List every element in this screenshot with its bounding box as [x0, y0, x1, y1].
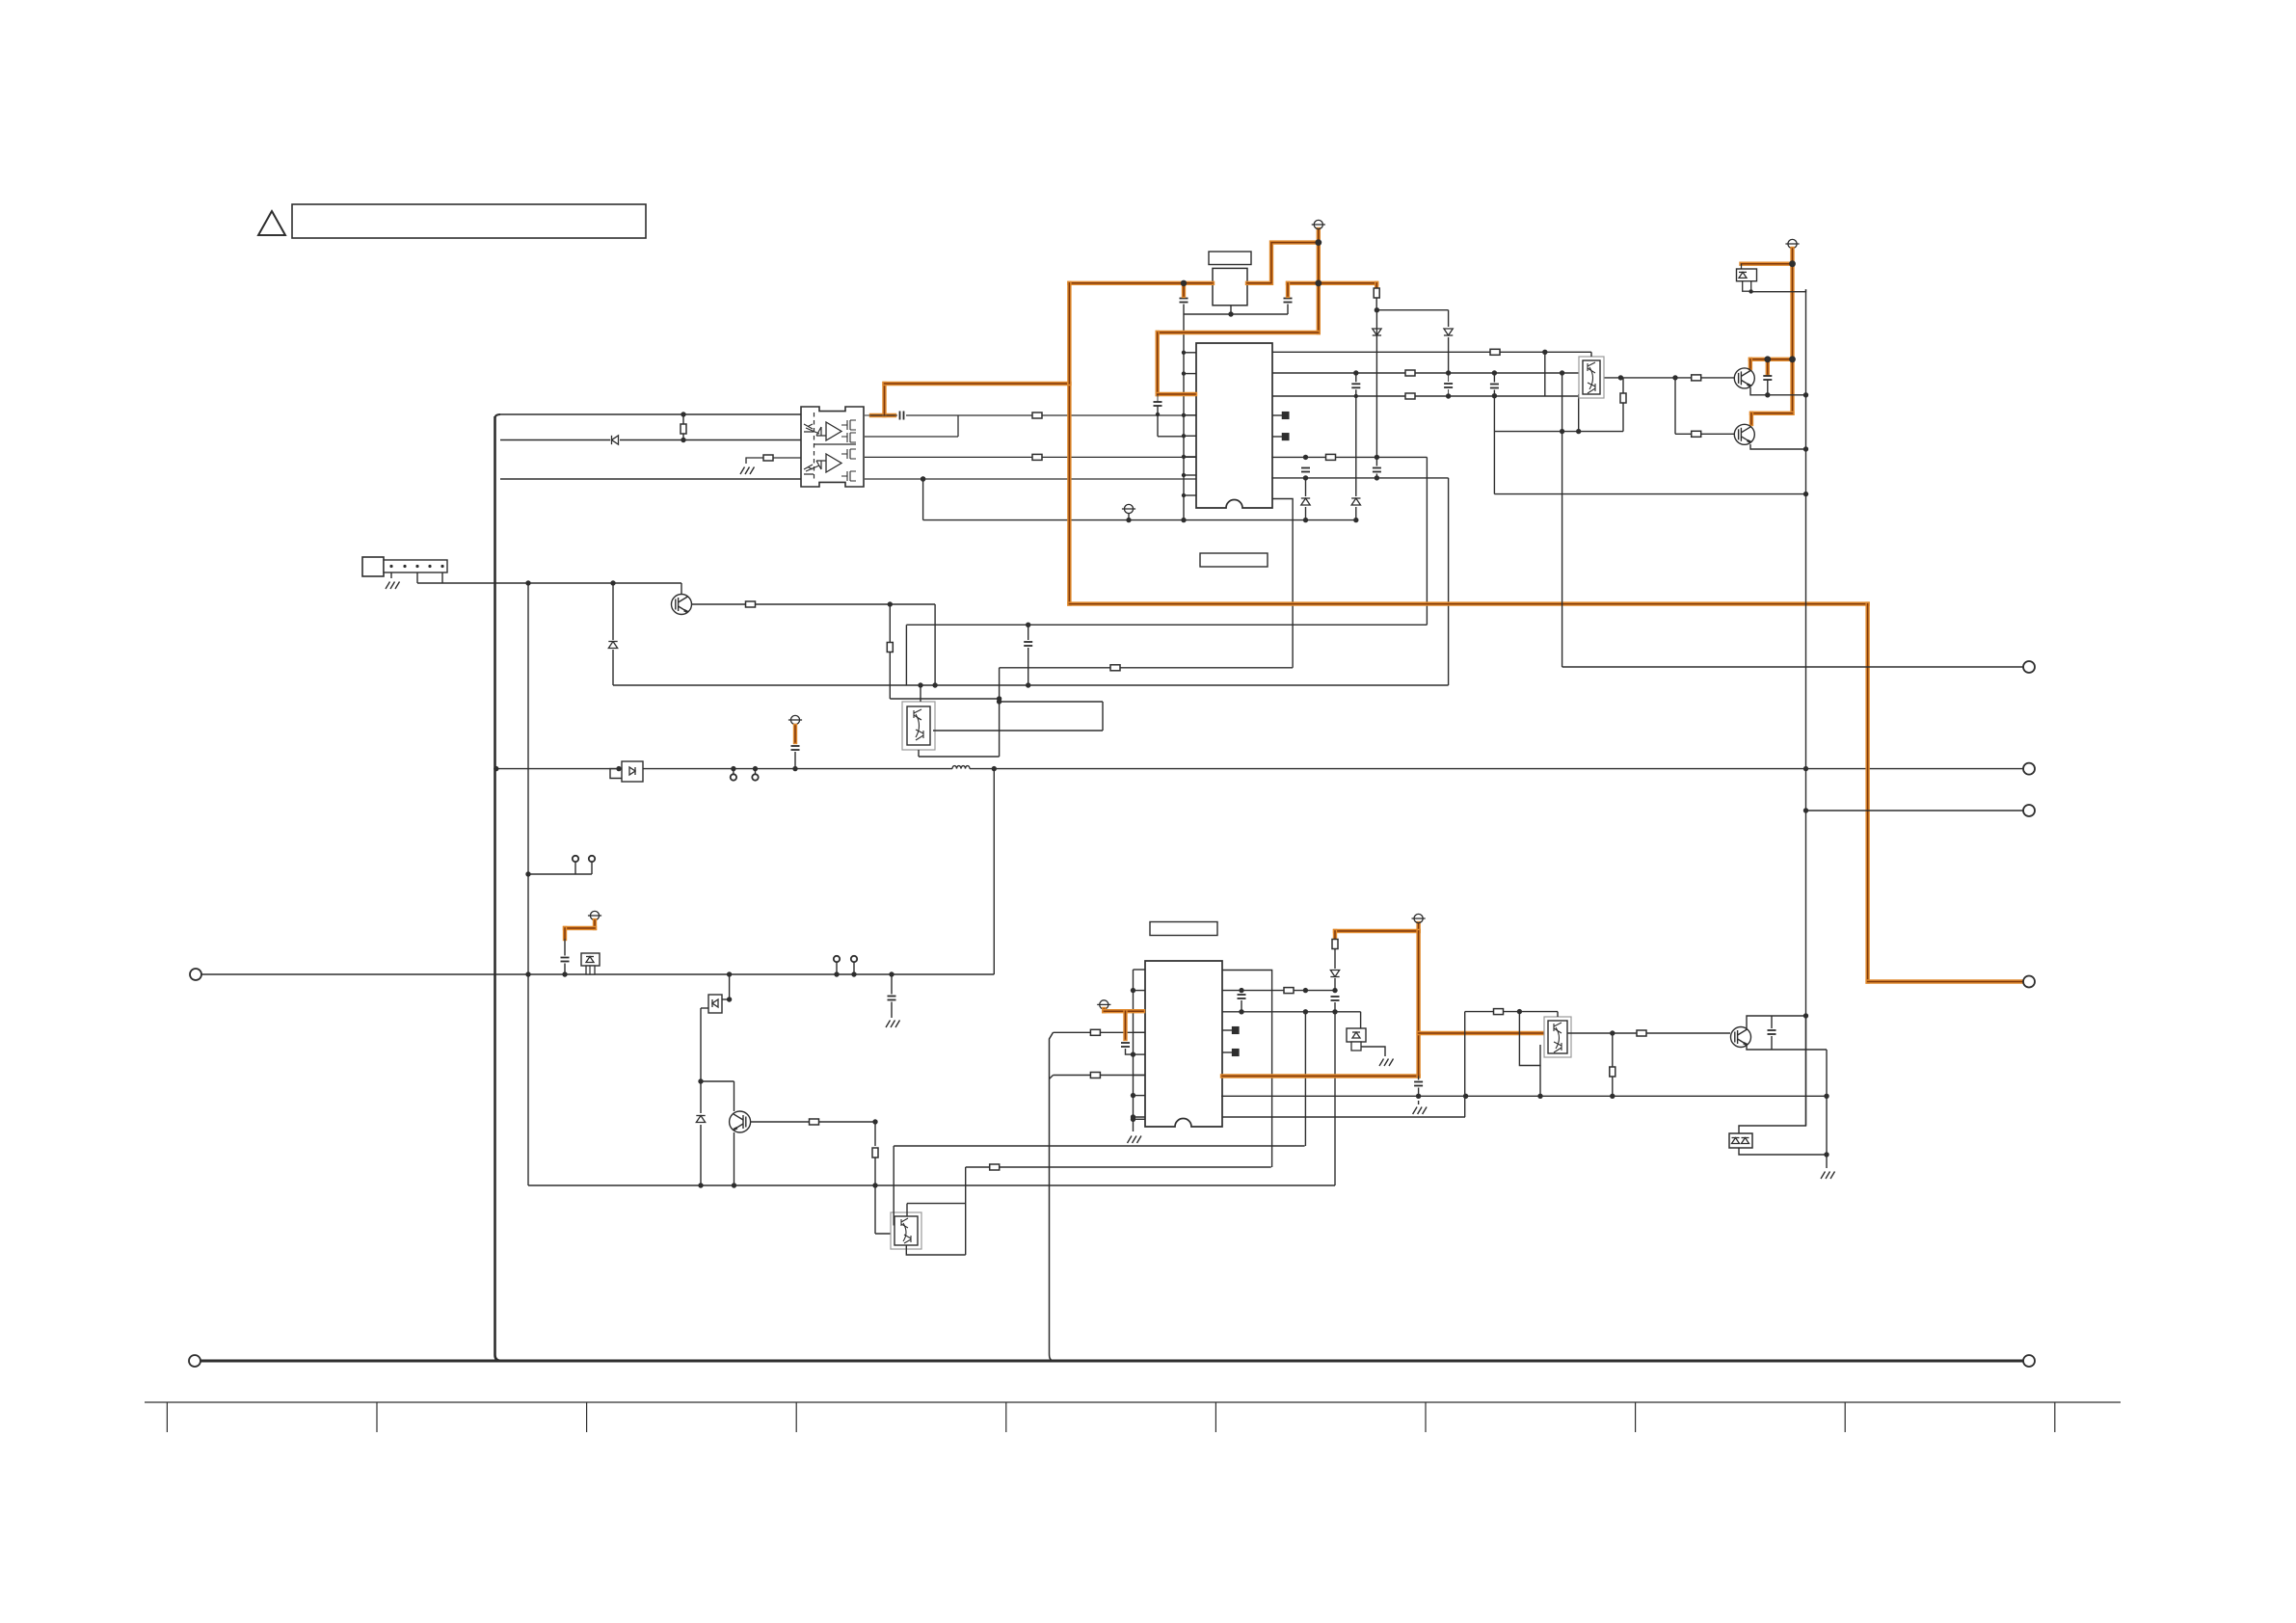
orange right column: [1790, 249, 1794, 413]
orange Q4 collector stub: [1749, 359, 1752, 368]
zener D16 x727: [696, 1116, 705, 1123]
zener D12 x636: [608, 642, 617, 649]
resistor R15 y1164: [810, 1119, 819, 1125]
wire x908 upper: [874, 1122, 876, 1146]
wire net OPTO-A2 y456.5 left: [500, 439, 610, 441]
driver block U4 inner: [894, 1216, 918, 1245]
resistor R12 y627: [746, 601, 756, 607]
driver block U4 outer: [891, 1212, 921, 1249]
pin pad U2 y1092: [1233, 1050, 1240, 1056]
wire opto y431 to U1: [906, 414, 1196, 416]
zener D4 x1502: [1444, 329, 1453, 335]
zener D19a: [1732, 1138, 1740, 1144]
opto input ground: [740, 467, 755, 475]
terminal bottom-left: [189, 1355, 200, 1367]
resistor R16 x908: [872, 1148, 878, 1157]
orange stub VREF2: [593, 920, 597, 928]
resistor R21 y1049: [1494, 1009, 1504, 1015]
U2 pin stub y1092: [1222, 1051, 1233, 1053]
capacitor C27 x1471: [1414, 1082, 1423, 1086]
IC U1 left pin bus: [1183, 314, 1185, 520]
orange stub C1: [1182, 283, 1186, 296]
wire x1519 vertical: [1464, 1012, 1466, 1117]
wire Dz stub: [1741, 264, 1743, 269]
wire x1602 feedback: [1544, 352, 1546, 396]
test point TP5: [834, 956, 840, 962]
wire x1406 upper: [1355, 373, 1357, 382]
cap C21 stub top: [1028, 625, 1029, 640]
wire y1164 to x908: [818, 1121, 875, 1123]
orange drop: [563, 928, 567, 939]
wire x1738: [1674, 378, 1676, 434]
connector pin 3: [415, 565, 418, 568]
wire net y797 left: [498, 768, 952, 770]
transistor Q7: [730, 1111, 751, 1132]
optocoupler U6 mid bar: [814, 443, 856, 445]
wire Q6 collector drop: [681, 583, 682, 594]
orange junction: [1315, 279, 1322, 286]
capacitor C6 series y431: [900, 412, 904, 420]
tp stub 2: [591, 862, 593, 874]
wire U4 top pin: [906, 1204, 908, 1216]
wire x1428 chain upper: [1375, 310, 1377, 466]
driver U7 transistors: [1588, 362, 1595, 393]
test point TP6: [851, 956, 857, 962]
wire T1 tap: [1230, 306, 1232, 314]
orange x1367 drop: [1317, 229, 1321, 333]
wire U5 top stub: [1557, 1012, 1559, 1017]
wire x548 vertical: [527, 583, 529, 1185]
wire net y447: [1494, 431, 1623, 433]
resistor R25 y1211: [990, 1164, 1000, 1170]
orange opto out stub: [871, 413, 894, 417]
driver U3 transistors: [914, 709, 923, 740]
wire x1385 mid: [1334, 949, 1336, 970]
zener block D5 tab: [1743, 281, 1751, 292]
orange junction2: [1315, 239, 1322, 246]
wire C29 gnd stub: [891, 1002, 893, 1019]
optocoupler U6 divider: [814, 412, 815, 481]
orange Q5 collector stub: [1749, 413, 1753, 424]
warning triangle: [258, 211, 285, 235]
wire Q7 base: [751, 1121, 810, 1123]
IC U1 left pin y452.3: [1184, 435, 1196, 437]
wire D2 stub: [1355, 389, 1357, 496]
wire D18 to gnd: [1361, 1047, 1385, 1056]
wire net y692 to terminal: [1562, 666, 2023, 668]
wire net y1011: [201, 973, 994, 975]
connector drop 1: [416, 572, 418, 583]
orange branch driver: [1742, 262, 1793, 266]
wire net y692 feedback: [1000, 667, 1294, 669]
resistor R17 y1071: [1090, 1029, 1100, 1035]
wire C23 stub top: [564, 939, 566, 956]
wire net y512: [1494, 493, 1805, 495]
wire net y1211: [966, 1166, 1271, 1168]
wire totem low stub: [1588, 394, 1589, 396]
ground D18: [1379, 1059, 1394, 1067]
wire x1385 mid2: [1334, 978, 1336, 993]
wire net A y711: [613, 684, 1449, 686]
optocoupler U6 fet2b: [841, 471, 856, 481]
wire x756 down: [729, 974, 731, 999]
wire C23 stub bot: [564, 964, 566, 975]
resistor R4 y474: [1326, 454, 1336, 460]
wire U5 output: [1567, 1032, 1637, 1034]
diode D13 glyph: [629, 767, 635, 775]
orange C8 stub: [1766, 359, 1770, 374]
U2 pin stub y1069: [1222, 1029, 1233, 1031]
wire D2 stub2: [1355, 507, 1357, 520]
driver block U7 inner: [1583, 360, 1600, 394]
cap C28 stub2: [1771, 1036, 1773, 1050]
wire U4 loop top: [907, 1203, 966, 1205]
capacitor C24 x1167: [1121, 1043, 1130, 1047]
orange GATE2 run: [1222, 1074, 1419, 1078]
test point TP1: [573, 856, 578, 862]
IC U2 left pin y1006: [1134, 969, 1146, 971]
IC U2 left pin y1161: [1134, 1118, 1146, 1120]
terminal OUT1 right: [2023, 661, 2035, 673]
orange VCC vertical: [1416, 931, 1420, 1077]
IC U2 bus ground: [1128, 1136, 1142, 1144]
tp stub 6: [853, 962, 855, 974]
wire opto y497 long: [865, 478, 1196, 480]
wire U4 out riser: [893, 1146, 894, 1226]
driver block U3 outer: [902, 702, 935, 750]
resistor R3 y411: [1405, 393, 1415, 399]
wire R24 upper: [1622, 378, 1624, 393]
wire D1 stub2: [1305, 507, 1307, 520]
connector pin 1: [389, 565, 392, 568]
resistor R23 x1672: [1610, 1067, 1615, 1077]
main left bus vertical: [495, 416, 502, 1361]
capacitor C29 x925: [888, 997, 896, 1000]
transformer T1 box: [1213, 268, 1247, 305]
wire IC2 input y1071: [1054, 1031, 1146, 1033]
IC U1 left pin y387.6: [1184, 373, 1196, 375]
orange drop x1200: [1155, 333, 1159, 394]
terminal left mid: [190, 969, 201, 980]
wire x1873 long vertical: [1805, 289, 1807, 1126]
wire net y1137: [1221, 1095, 1827, 1097]
orange link: [565, 926, 595, 930]
IC U2 left pin y1094: [1134, 1053, 1146, 1055]
wire x1031 down: [993, 769, 995, 974]
wire x1502 mid: [1448, 337, 1450, 373]
wire x1480 down: [1426, 457, 1428, 625]
wire R8 to y321: [1375, 298, 1377, 310]
cap C3 stub: [1157, 406, 1159, 414]
zener D1 x1354: [1301, 498, 1310, 505]
orange SGND stub: [1102, 1009, 1106, 1011]
wire x1620 long: [1562, 373, 1563, 667]
wire D13 bracket: [610, 769, 622, 779]
wire opto pin3: [773, 457, 801, 459]
driver block U7 outer: [1579, 357, 1604, 398]
test point TP2: [589, 856, 595, 862]
wire C27 stub2: [1418, 1088, 1420, 1097]
resistor R19 y1027: [1284, 988, 1294, 994]
wire x727 to zener: [700, 1081, 702, 1113]
cap C25 stub2: [1241, 1000, 1242, 1012]
terminal screw VCC3: [1785, 239, 1799, 248]
wire x957 corner: [922, 479, 924, 520]
orange junction C1: [1181, 280, 1187, 286]
wire x994: [957, 415, 959, 437]
capacitor C22 x825: [791, 746, 800, 750]
capacitor C23 x586: [561, 958, 570, 962]
warning note box: [292, 204, 646, 238]
wire C8 bottom: [1767, 380, 1769, 395]
IC U2 left pin y1136: [1134, 1095, 1146, 1097]
wire net OPTO-A3 y497: [500, 478, 801, 480]
wire net B y725: [890, 698, 999, 700]
wire x1672 lower: [1612, 1077, 1614, 1096]
wire x727 upper: [700, 1008, 702, 1081]
test point TP4: [752, 774, 758, 780]
optocoupler U6 amp1: [826, 422, 841, 440]
terminal OUT2 right: [2023, 763, 2035, 775]
wire x1144: [1102, 702, 1104, 731]
wire D5 out: [1751, 289, 1806, 292]
wire net y1230: [528, 1184, 1335, 1186]
orange run y398: [885, 382, 1070, 386]
wire x970 down: [934, 604, 936, 685]
wire net y841: [1806, 810, 2024, 811]
wire net y539: [923, 519, 1356, 521]
pin pad U2 y1069: [1233, 1027, 1240, 1034]
wire net CN-row y605: [417, 582, 681, 584]
wire U1 row5 y495: [1271, 477, 1448, 479]
resistor R10 y450: [1692, 431, 1701, 437]
driver U5 transistors: [1554, 1023, 1562, 1052]
wire y627 to corner: [756, 603, 935, 605]
label box T1: [1209, 252, 1251, 265]
wire x923 lower: [889, 652, 891, 699]
wire U3 bottom loop: [919, 756, 1000, 758]
wire U1 row4 y474: [1271, 456, 1427, 458]
resistor R18 y1115: [1090, 1073, 1100, 1078]
orange T1 secondary jog: [1247, 243, 1319, 283]
wire Q6 out to R: [692, 603, 745, 605]
wire R24 lower: [1622, 403, 1624, 432]
resistor R14 y692: [1110, 665, 1120, 671]
zener pair D19 box: [1729, 1133, 1752, 1148]
terminal OUT4 right: [2023, 976, 2035, 988]
wire x727 lower: [700, 1125, 702, 1185]
wire zener pair to gnd net: [1739, 1148, 1827, 1155]
wire U4 input: [875, 1233, 894, 1235]
capacitor C25 x1288: [1238, 995, 1246, 998]
wire y321 link: [1376, 309, 1448, 311]
wire Q8 collector: [1747, 1016, 1806, 1029]
optocoupler U6 amp2: [826, 454, 841, 472]
wire U1 row1 y365: [1272, 351, 1591, 353]
IC U2 body: [1145, 961, 1222, 1127]
wire Q7 collector drop: [734, 1081, 735, 1111]
orange SGND cap drop: [1123, 1011, 1127, 1039]
label box U1: [1200, 553, 1268, 567]
inductor L1: [952, 766, 970, 769]
wire to Dz block: [1360, 1012, 1362, 1028]
orange branch to C2: [1288, 281, 1319, 285]
IC U1 body: [1196, 343, 1272, 508]
terminal screw SGND: [1097, 1000, 1110, 1009]
U1 pin stub y453: [1272, 436, 1282, 438]
U1 pin stub y431: [1272, 414, 1282, 416]
ground C29: [886, 1021, 900, 1028]
wire x1550: [1493, 390, 1495, 494]
orange VCC pin U1: [1158, 392, 1195, 396]
cap C3 stub top: [1157, 394, 1159, 402]
IC U2 left pin y1115: [1134, 1075, 1146, 1077]
resistor R11 x709: [681, 424, 686, 434]
connector pin 5: [441, 565, 443, 568]
wire IC2 input y1115: [1054, 1075, 1146, 1077]
wire net y648: [906, 624, 1427, 625]
orange run to R8: [1319, 281, 1376, 285]
transistor Q8 IGBT: [1731, 1027, 1751, 1048]
ruler baseline: [145, 1401, 2121, 1403]
capacitor C31 x1550: [1490, 385, 1499, 388]
orange x1109 upper: [1067, 283, 1071, 384]
transistor Q5 IGBT: [1734, 424, 1754, 444]
wire x940 down: [905, 625, 907, 685]
wire Q5 base y450: [1675, 433, 1734, 435]
orange stub C2: [1286, 283, 1290, 296]
wire U2 pin y1006 drop: [1222, 971, 1272, 1168]
zener D19b: [1742, 1138, 1749, 1144]
tp stub 5: [836, 962, 838, 974]
wire U1 row2 y387: [1272, 372, 1581, 374]
ground C27: [1413, 1107, 1428, 1115]
tp stub 3: [733, 769, 734, 774]
IC U1 left pin y365.8: [1184, 352, 1196, 354]
driver block U3 inner: [907, 706, 930, 745]
IC U2 left pin y1027: [1134, 990, 1146, 992]
orange VCC drop: [1333, 931, 1337, 939]
capacitor C1 x1228: [1180, 299, 1188, 303]
wire to Q8 base: [1646, 1032, 1730, 1034]
IC U1 left pin y409: [1184, 393, 1196, 395]
terminal screw VREF1: [788, 715, 802, 724]
orange riser x917: [882, 384, 886, 415]
wire opto gnd stub: [746, 458, 763, 464]
wire x1385 mid3: [1334, 1002, 1336, 1012]
pin pad U1 y431: [1282, 412, 1289, 419]
optocoupler U6 fet1b: [841, 433, 856, 442]
wire Q7 emitter drop: [734, 1132, 735, 1185]
junction bus/y797: [494, 766, 498, 771]
wire D15 left: [701, 1007, 708, 1009]
ruler ticks: [166, 1402, 168, 1432]
wire x1502 upper: [1448, 310, 1450, 327]
orange T1 primary left: [1069, 281, 1213, 285]
wire U2 row y1027: [1222, 990, 1335, 992]
junction y627/x923: [888, 601, 893, 606]
zener D2 x1406: [1351, 498, 1360, 505]
wire U1 row6 drop x1341: [1272, 499, 1293, 668]
wire x1354 down: [1304, 1012, 1306, 1097]
capacitor C28 x1838: [1768, 1030, 1776, 1034]
capacitor C3 x1201: [1154, 402, 1162, 406]
orange GATE2 to driver: [1419, 1031, 1547, 1035]
wire U3 top stub: [920, 685, 921, 702]
wire U7 top stub: [1590, 352, 1592, 357]
terminal screw VCC2: [1412, 914, 1426, 922]
wire totem out y391: [1600, 377, 1734, 379]
wire Q5 emitter y466: [1750, 444, 1806, 449]
cap C1 stub: [1183, 305, 1185, 315]
connector ground: [386, 582, 400, 590]
capacitor C8 x1833: [1763, 376, 1772, 380]
IC U2 left pin y1049: [1134, 1010, 1146, 1012]
wire x1354 lower ext: [1304, 1096, 1306, 1146]
wire net OPTO-A1 y430: [500, 413, 801, 415]
wire x1895 down: [1826, 1050, 1828, 1168]
zener block D18 box: [1347, 1028, 1366, 1042]
wire x1550 top: [1493, 373, 1495, 383]
resistor R22 y1072: [1637, 1030, 1646, 1036]
ground x1895: [1821, 1172, 1835, 1180]
IC U1 left pin y473.9: [1184, 456, 1196, 458]
terminal screw VCC1: [1312, 220, 1325, 228]
wire D15 link: [722, 998, 730, 1000]
transistor Q4 IGBT: [1734, 368, 1754, 388]
diode pack D15 box: [708, 995, 722, 1013]
wire net OPTO-A2 y456.5 right: [620, 439, 801, 441]
zener block D18 tab: [1351, 1042, 1361, 1051]
orange left riser x1109: [1067, 384, 1071, 604]
wire opto y474 to U1: [865, 456, 1196, 458]
driver U4 transistors: [901, 1218, 911, 1243]
wire D14 stub: [589, 966, 591, 974]
wire net y1159: [1134, 1116, 1466, 1118]
optocoupler U6 fet1a: [841, 420, 856, 430]
pin pad U1 y453: [1282, 434, 1289, 440]
wire y1049 to U5: [1503, 1011, 1558, 1013]
capacitor C5 x1428: [1373, 468, 1381, 472]
wire net y797 right to terminal: [970, 768, 2023, 770]
resistor R5 opto in: [763, 455, 773, 461]
wire x923 upper: [889, 604, 891, 643]
diode D15 glyph: [712, 999, 718, 1007]
wire resistor drop x709: [682, 414, 684, 440]
wire y728: [1000, 701, 1103, 703]
driver block U5 outer: [1544, 1017, 1571, 1057]
terminal screw REF3: [1122, 504, 1135, 513]
wire C27 stub: [1418, 1077, 1420, 1080]
resistor R13 x923: [887, 643, 893, 652]
capacitor C30 x1406: [1351, 384, 1360, 387]
zener D3 x1428: [1373, 329, 1381, 335]
resistor R20 x1385: [1332, 940, 1338, 949]
orange Q4 collector link: [1750, 358, 1793, 361]
resistor R6 y431: [1032, 412, 1042, 418]
wire D1 stub: [1305, 478, 1307, 496]
IC U2 left pin y1071: [1134, 1031, 1146, 1033]
wire U2 row y1049: [1222, 1011, 1361, 1013]
resistor R8 x1428: [1374, 288, 1379, 298]
resistor R24 x1684: [1620, 393, 1626, 403]
terminal screw VREF2: [588, 911, 601, 919]
wire totem low drop: [1578, 394, 1580, 431]
orange SGND pin: [1104, 1009, 1143, 1013]
diode pack D13 box: [622, 761, 643, 782]
wire x1385 to y1137: [1334, 1012, 1336, 1097]
cap C2 stub: [1287, 305, 1289, 315]
